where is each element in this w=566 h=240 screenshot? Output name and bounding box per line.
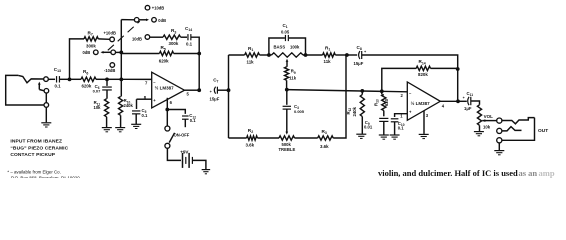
- label C13: [54, 67, 61, 73]
- label R5 value 620k: [159, 58, 169, 63]
- svg-text:C11: C11: [467, 91, 474, 97]
- input jack J1 body: [6, 75, 44, 105]
- switch S1a pole terminal: [111, 50, 116, 55]
- svg-text:0dB: 0dB: [83, 50, 91, 55]
- wire (treble pot to R3b): [295, 137, 318, 139]
- label OUT: [538, 128, 548, 134]
- svg-text:R5: R5: [161, 45, 166, 51]
- svg-text:3: 3: [426, 113, 429, 118]
- svg-text:1μF: 1μF: [464, 106, 472, 111]
- resistor R7: [84, 37, 98, 41]
- svg-text:0.07: 0.07: [93, 89, 102, 94]
- wire (supply node to switch): [166, 110, 168, 126]
- svg-text:CONTACT PICKUP: CONTACT PICKUP: [10, 152, 55, 158]
- pin 4 label U2: [442, 104, 445, 109]
- svg-text:C8: C8: [357, 45, 362, 51]
- label C12: [189, 113, 196, 119]
- svg-text:11k: 11k: [247, 60, 255, 65]
- wire (U1 output pin 5): [185, 89, 200, 91]
- op-amp U1 minus sign: [153, 79, 156, 84]
- svg-text:10dB: 10dB: [132, 37, 142, 42]
- wire (R9 to mid node): [286, 80, 288, 89]
- svg-text:240k: 240k: [124, 103, 134, 108]
- wire (C9 to ground): [383, 121, 385, 134]
- capacitor C13: [57, 76, 60, 82]
- label R9: [291, 69, 296, 75]
- svg-text:R6: R6: [83, 69, 88, 75]
- wire (C13 to input node): [60, 78, 70, 80]
- svg-text:300k: 300k: [169, 41, 179, 46]
- label BASS 100k: [274, 45, 300, 50]
- wire (switch to battery): [167, 148, 181, 160]
- svg-text:0.01: 0.01: [364, 125, 373, 130]
- label footnote asterisk: [7, 169, 80, 180]
- pin 5 label U1: [187, 92, 190, 97]
- op-amp U1 plus sign: [153, 98, 156, 103]
- pin 2 label U2: [401, 93, 404, 98]
- label C1: [283, 23, 288, 29]
- resistor R2: [247, 136, 258, 140]
- wire (output node to C11): [458, 100, 467, 102]
- switch S1b wiper arm: [139, 18, 149, 21]
- label +9V: [180, 149, 189, 154]
- label C3 value 0.005: [294, 109, 305, 114]
- label R1: [248, 46, 253, 52]
- wire (U2 output pin 4): [440, 100, 458, 102]
- svg-text:INPUT FROM IBANEZ: INPUT FROM IBANEZ: [10, 139, 62, 145]
- resistor R3: [163, 35, 181, 39]
- svg-text:620: 620: [384, 98, 389, 106]
- output jack J2 sleeve terminal: [497, 138, 502, 143]
- wire (R7 to +10dB terminal): [98, 38, 109, 40]
- wire (C5 to ground): [135, 114, 137, 124]
- VOL wiper arrow: [482, 119, 496, 122]
- node (pin 6 / supply node): [165, 108, 169, 112]
- potentiometer TREBLE 500k: [279, 136, 295, 140]
- wire (node down to C6): [106, 79, 108, 86]
- capacitor C5: [132, 111, 140, 114]
- wire (C12 stub): [184, 119, 186, 127]
- resistor R10: [119, 97, 123, 116]
- svg-text:10k: 10k: [483, 124, 491, 129]
- wire (tone vertical to R1): [229, 54, 245, 56]
- label C1 value 0.05: [281, 29, 290, 34]
- svg-text:“BUG” PIEZO CERAMIC: “BUG” PIEZO CERAMIC: [10, 145, 68, 151]
- wire (C6 to R11): [106, 90, 108, 99]
- capacitor C7 (electrolytic): [214, 87, 217, 94]
- label R1b value 11k: [324, 59, 332, 64]
- ground (R11): [102, 128, 112, 132]
- ground (input jack): [41, 123, 51, 127]
- node (summing node): [345, 53, 349, 57]
- label R2: [248, 128, 253, 134]
- svg-text:R1: R1: [248, 46, 253, 52]
- label INPUT FROM IBANEZ note: [10, 139, 68, 159]
- wire (C8 to right corner): [362, 55, 458, 69]
- label C8: [357, 45, 362, 51]
- wire (C11 to VOL pot): [471, 101, 479, 105]
- label R13 (rotated): [373, 99, 379, 106]
- svg-text:C14: C14: [185, 26, 192, 32]
- svg-text:3.6k: 3.6k: [246, 143, 255, 148]
- wire (VOL pot to ground): [479, 125, 481, 131]
- label R3b: [322, 129, 327, 135]
- svg-text:BASS: BASS: [274, 45, 286, 50]
- svg-text:R2: R2: [248, 128, 253, 134]
- pin 7 label U1: [145, 81, 148, 86]
- node (input node): [68, 78, 72, 82]
- resistor R5: [159, 51, 173, 55]
- wire (input node up to R7): [70, 39, 85, 79]
- svg-text:5: 5: [187, 92, 190, 97]
- label 500k: [282, 142, 292, 147]
- label C8 plus: [364, 50, 367, 54]
- resistor R6: [81, 77, 96, 81]
- svg-text:620k: 620k: [159, 58, 169, 63]
- label -10dB (right): [132, 37, 142, 42]
- op-amp U2 minus sign: [409, 91, 412, 96]
- wire (switch bus vertical): [120, 20, 122, 80]
- wire (mid node to U2 input): [287, 90, 408, 92]
- output jack J2 ring terminal: [497, 128, 502, 133]
- resistor R12: [360, 95, 364, 117]
- svg-text:6: 6: [170, 100, 173, 105]
- treble pot wiper arrow (from C3): [285, 109, 288, 135]
- svg-text:½ LM387: ½ LM387: [411, 100, 431, 106]
- label R1 value 11k: [247, 60, 255, 65]
- label C7 value 15uF: [210, 96, 220, 101]
- resistor R1: [245, 53, 260, 57]
- bass pot wiper arrow: [286, 59, 289, 67]
- svg-text:4: 4: [442, 104, 445, 109]
- label C5 value 0.1: [142, 113, 148, 118]
- svg-text:10k: 10k: [94, 105, 102, 110]
- ground (R10): [115, 128, 125, 132]
- label R6: [83, 69, 88, 75]
- wire (R6 to node): [96, 78, 107, 80]
- svg-text:R7: R7: [88, 30, 93, 36]
- output jack J2 tip terminal: [497, 118, 502, 123]
- op-amp U2 triangle: [407, 82, 440, 120]
- label R3b value 3.6k: [320, 144, 329, 149]
- wire (R14 to output node): [431, 67, 458, 69]
- output jack J2 body: [502, 118, 535, 141]
- resistor R1b: [323, 53, 336, 57]
- switch S1a 0dB terminal: [94, 50, 99, 55]
- output jack J2 ring contact: [502, 127, 522, 131]
- input jack J1 tip spring contact: [18, 75, 43, 82]
- wire (pin2 node up to R14): [382, 68, 416, 91]
- svg-text:R3: R3: [171, 28, 176, 34]
- switch S1b 0dB terminal: [152, 18, 157, 23]
- switch S1a +10dB terminal: [110, 37, 115, 42]
- wire (node to bus node): [107, 78, 121, 80]
- label C14: [185, 26, 192, 32]
- wire (pin 8): [137, 98, 152, 100]
- label U2 1/2 LM387: [411, 100, 431, 106]
- svg-text:15μF: 15μF: [354, 61, 364, 66]
- label R10: [124, 98, 131, 104]
- svg-text:R1: R1: [325, 45, 330, 51]
- label U1 1/2 LM387: [155, 84, 175, 90]
- svg-text:+: +: [364, 50, 367, 54]
- wire (C14 to feedback node): [191, 37, 199, 53]
- capacitor C11 (electrolytic): [468, 97, 471, 105]
- svg-text:0.05: 0.05: [281, 29, 290, 34]
- label VOL: [484, 114, 494, 119]
- wire (R14 node to output node): [457, 69, 459, 101]
- pin 6 label U1: [170, 100, 173, 105]
- label TREBLE: [279, 147, 296, 152]
- wire (bus node down to R10): [120, 79, 122, 96]
- svg-text:ON-OFF: ON-OFF: [174, 133, 190, 138]
- capacitor C3: [283, 106, 291, 109]
- node (R14 right node): [456, 67, 460, 71]
- capacitor C6: [102, 87, 112, 90]
- svg-text:620k: 620k: [82, 84, 92, 89]
- node (bus / R5 junction): [119, 51, 123, 55]
- pin 3 label U2: [426, 113, 429, 118]
- capacitor C10: [391, 119, 399, 122]
- node (U2 output node): [456, 99, 460, 103]
- svg-text:0.1: 0.1: [55, 83, 62, 88]
- node (mid node): [285, 88, 289, 92]
- input jack J1 ring terminal: [44, 89, 49, 94]
- wire (tone node vertical): [228, 55, 230, 138]
- ground (C5): [131, 124, 141, 128]
- wire (R13 junction down): [362, 91, 382, 95]
- label VOL value 10k: [483, 124, 491, 129]
- capacitor C9: [379, 118, 388, 121]
- ground (R12): [356, 134, 366, 138]
- label C14 value 0.1: [186, 42, 193, 47]
- node (pin7 bus node): [119, 78, 123, 82]
- node (R6 output node): [105, 78, 109, 82]
- svg-text:C13: C13: [54, 67, 61, 73]
- svg-text:240k: 240k: [352, 106, 357, 116]
- resistor R11: [105, 99, 109, 117]
- label -10dB (left): [104, 68, 115, 73]
- label C11 value 1uF: [464, 106, 472, 111]
- wire (R10 to ground): [120, 115, 122, 127]
- switch S1a -10dB terminal: [110, 63, 115, 68]
- label R12 value 240k (rotated): [352, 106, 357, 116]
- pin 8 label U1: [144, 95, 147, 100]
- svg-text:7: 7: [145, 81, 148, 86]
- capacitor C14: [188, 34, 191, 40]
- wire (R1b to summing node): [335, 54, 347, 56]
- svg-text:+10dB: +10dB: [104, 30, 116, 35]
- svg-text:11k: 11k: [324, 59, 332, 64]
- label R13 value 620 (rotated): [384, 98, 389, 106]
- node (bass right): [304, 53, 308, 57]
- svg-text:300k: 300k: [86, 44, 96, 49]
- svg-text:TREBLE: TREBLE: [279, 147, 296, 152]
- wire (R1 to bass pot): [260, 54, 269, 56]
- label C3: [294, 104, 299, 110]
- ground (output jack): [494, 151, 504, 155]
- resistor R13: [382, 95, 386, 111]
- label R10 value 240k: [124, 103, 134, 108]
- pin 3 stub U2: [423, 111, 425, 134]
- switch S2 terminal 1: [165, 126, 170, 131]
- switch S1b pole terminal: [134, 18, 139, 23]
- switch S1b +10dB terminal: [145, 5, 150, 10]
- capacitor C1: [285, 35, 288, 41]
- node (R12 junction): [360, 89, 364, 93]
- wire (-10dB terminal to R3): [150, 36, 163, 38]
- ground (battery): [202, 170, 211, 174]
- potentiometer BASS 100k: [272, 53, 304, 57]
- wire (R12 to ground): [361, 117, 363, 134]
- svg-text:0.1: 0.1: [186, 42, 193, 47]
- capacitor C8 (electrolytic): [359, 51, 362, 59]
- pin 1 label U2: [400, 114, 403, 119]
- svg-text:violin, and dulcimer. Half of: violin, and dulcimer. Half of IC is used: [378, 168, 518, 178]
- wire (battery to ground): [192, 160, 206, 169]
- resistor R3b: [318, 136, 334, 140]
- svg-text:½ LM387: ½ LM387: [155, 84, 175, 90]
- label C7: [213, 77, 218, 83]
- svg-text:2: 2: [401, 93, 404, 98]
- wire (jack arrow to ring terminal): [39, 90, 44, 91]
- capacitor C1 branch (right riser): [289, 38, 306, 55]
- label R6 value 620k: [82, 84, 92, 89]
- wire (sleeve to ground): [45, 107, 47, 122]
- wire (supply node to C12): [167, 110, 185, 114]
- svg-text:+10dB: +10dB: [152, 6, 164, 11]
- svg-text:C1: C1: [283, 23, 288, 29]
- wire (ring to sleeve terminal): [45, 93, 47, 103]
- svg-text:100k: 100k: [290, 45, 300, 50]
- label R12 (rotated): [346, 108, 352, 115]
- label 0dB (left): [83, 50, 91, 55]
- label +10dB (right): [152, 6, 164, 11]
- wire (R5 to feedback node): [174, 53, 200, 55]
- label C13 value 0.1: [55, 83, 62, 88]
- svg-text:-10dB: -10dB: [104, 68, 115, 73]
- svg-text:0dB: 0dB: [158, 18, 166, 23]
- svg-text:0.005: 0.005: [294, 109, 305, 114]
- label R1b: [325, 45, 330, 51]
- label ON-OFF: [174, 133, 190, 138]
- svg-text:VOL: VOL: [484, 114, 494, 119]
- svg-text:as an: as an: [519, 168, 538, 178]
- wire (sleeve to ground): [498, 143, 500, 150]
- wire (R3b up to summing node): [333, 55, 346, 138]
- label 0dB (right): [158, 18, 166, 23]
- switch S1 mechanical link (dashed): [108, 21, 140, 50]
- output jack J2 tip contact: [502, 118, 535, 124]
- label C8 value 15uF: [354, 61, 364, 66]
- wire (bus corner to right pole): [121, 19, 134, 21]
- svg-text:OUT: OUT: [538, 128, 548, 134]
- input jack J1 sleeve terminal: [44, 103, 49, 108]
- label C10 value 0.1: [398, 126, 404, 131]
- wire (tip terminal to C13): [48, 78, 55, 80]
- wire (R11 to ground): [106, 117, 108, 128]
- op-amp U1 triangle: [152, 72, 185, 108]
- wire (R13 to C9): [383, 111, 385, 117]
- svg-text:0.1: 0.1: [190, 118, 196, 123]
- label R3: [171, 28, 176, 34]
- switch S2 lever: [169, 133, 174, 143]
- wire (pin 1 to C10): [395, 114, 408, 117]
- wire (pole to bus): [116, 51, 122, 53]
- label R3 value 300k: [169, 41, 179, 46]
- svg-text:P.O. Box 868, Bensalem, PA 190: P.O. Box 868, Bensalem, PA 19020: [11, 175, 80, 178]
- svg-text:3.6k: 3.6k: [320, 144, 329, 149]
- wire (R2 to treble pot): [257, 137, 279, 139]
- capacitor C12: [182, 116, 189, 119]
- wire (pin 8 to C5): [136, 99, 138, 109]
- ground (C9): [379, 135, 389, 139]
- potentiometer VOL 10k: [477, 105, 481, 126]
- svg-text:+: +: [210, 90, 213, 94]
- svg-text:+: +: [463, 96, 465, 100]
- wire (mid node to C3): [286, 90, 288, 105]
- label R14: [419, 59, 426, 65]
- battery B1 +9V: [183, 153, 193, 168]
- switch S1a wiper arm: [101, 51, 112, 54]
- label R7: [88, 30, 93, 36]
- wire (bass element ends): [269, 54, 306, 56]
- svg-text:R9: R9: [291, 69, 296, 75]
- wire (C10 to ground): [394, 122, 396, 135]
- label C10: [398, 121, 405, 127]
- node (U1 output node): [197, 88, 201, 92]
- label R11: [94, 100, 101, 106]
- capacitor C1 branch (left riser): [269, 38, 285, 55]
- op-amp U2 plus sign: [409, 110, 412, 115]
- svg-text:* – available from Elger Co.: * – available from Elger Co.: [7, 169, 60, 174]
- wire (tone vertical to R2): [229, 137, 247, 139]
- wire (bus node to R5): [121, 53, 159, 55]
- wire (bus node to pin 7): [121, 78, 151, 80]
- node (tone input node): [227, 88, 231, 92]
- ground (pin 3): [419, 134, 429, 138]
- pin 6 stub U1: [166, 98, 168, 110]
- label C11: [463, 91, 474, 100]
- svg-text:R3: R3: [322, 129, 327, 135]
- label R9 value 11k: [289, 75, 296, 80]
- ground (C10): [390, 135, 400, 139]
- switch S1b -10dB terminal: [145, 35, 150, 40]
- resistor R14: [416, 66, 430, 70]
- label C9 value 0.01: [364, 125, 373, 130]
- label C12 value 0.1: [190, 118, 196, 123]
- svg-text:820k: 820k: [418, 72, 428, 77]
- node (R13 / R14 junction): [380, 89, 384, 93]
- label R14 value 820k: [418, 72, 428, 77]
- node (bass left): [267, 53, 271, 57]
- input jack J1 plug-tip arrow: [38, 82, 41, 90]
- svg-text:0.1: 0.1: [142, 113, 148, 118]
- resistor R9: [285, 67, 289, 81]
- svg-text:R14: R14: [419, 59, 426, 65]
- svg-text:C7: C7: [213, 77, 218, 83]
- wire (bass right to R1b): [306, 54, 323, 56]
- svg-text:0.1: 0.1: [398, 126, 404, 131]
- svg-text:R13: R13: [373, 99, 379, 106]
- svg-text:15μF: 15μF: [210, 96, 220, 101]
- svg-text:amp: amp: [539, 168, 555, 178]
- node (feedback node): [197, 52, 201, 56]
- label R7 value 300k: [86, 44, 96, 49]
- input jack J1 tip terminal: [44, 77, 49, 82]
- wire (C7 to tone node): [217, 89, 228, 91]
- label C7 plus: [210, 90, 213, 94]
